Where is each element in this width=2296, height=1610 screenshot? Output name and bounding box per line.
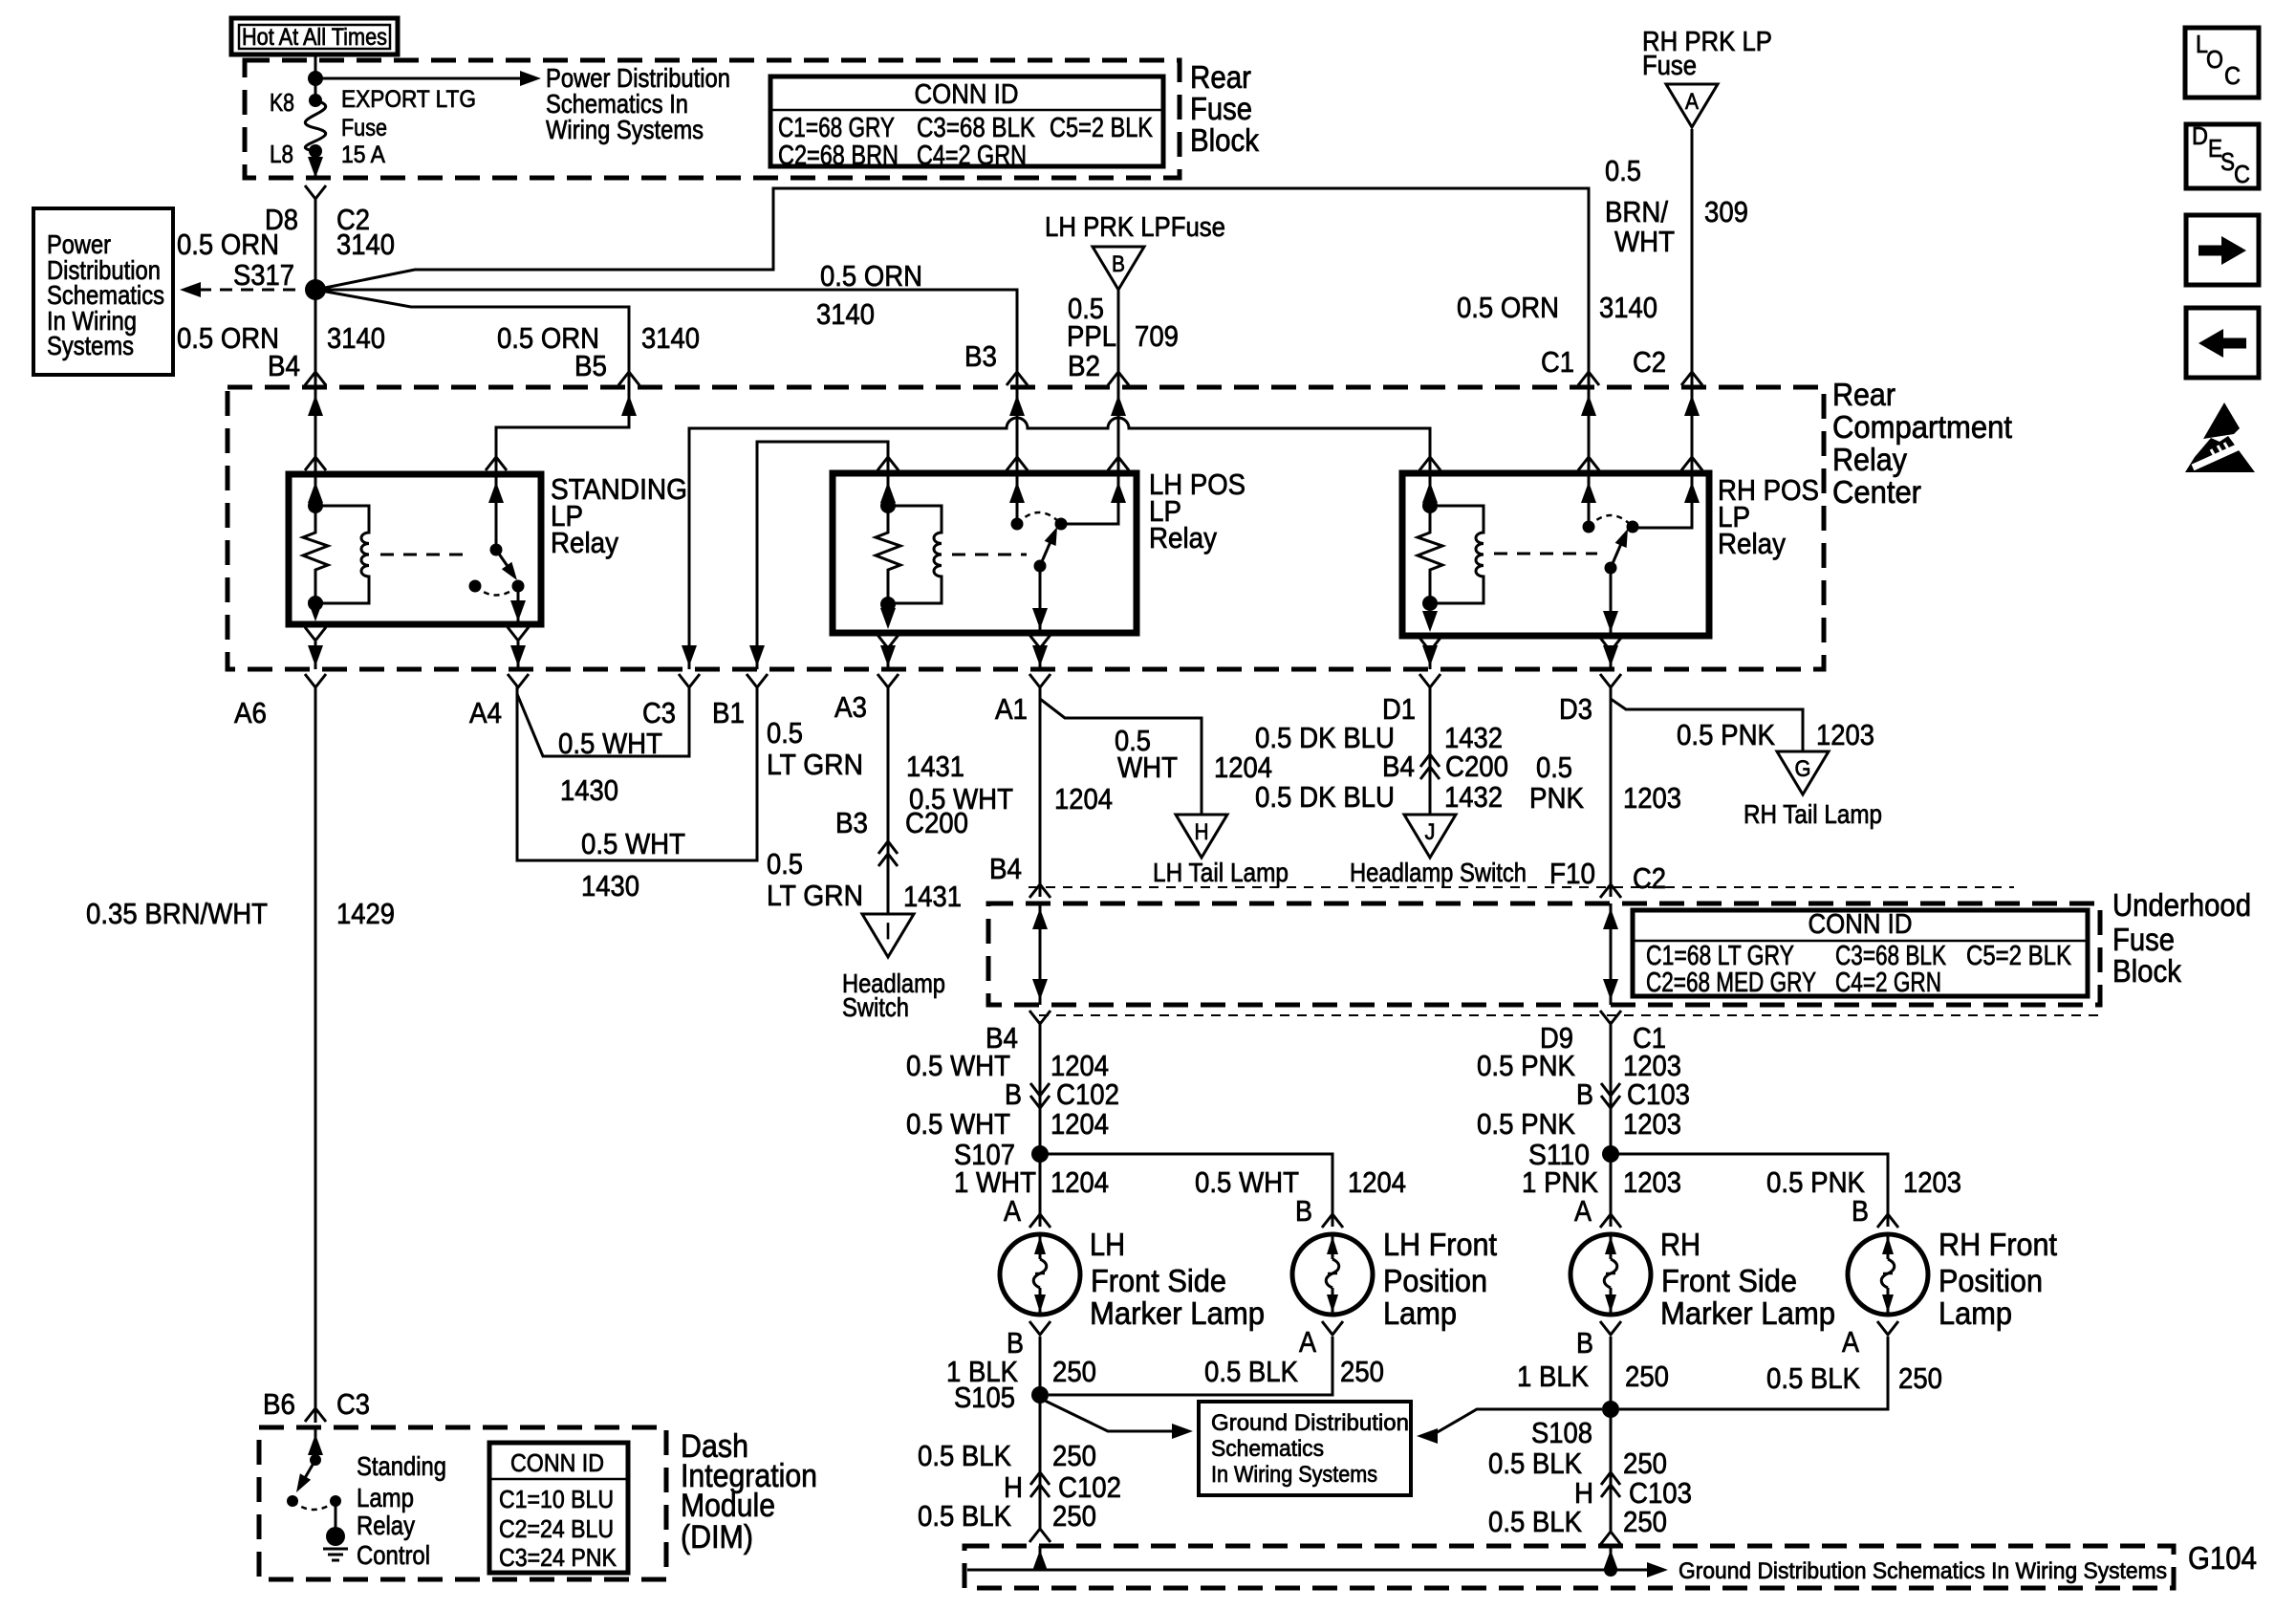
connector fork at G104 boundary (right) [1600, 1532, 1621, 1545]
connector D3 at relay center bottom edge [1600, 674, 1621, 687]
label 0.5 WHT (A4-C3) [558, 727, 662, 760]
wire into G104 (right) [1603, 1546, 1618, 1571]
svg-text:3140: 3140 [641, 321, 700, 355]
svg-text:B4: B4 [268, 349, 300, 382]
svg-text:C: C [2234, 160, 2250, 188]
svg-text:PNK: PNK [1529, 781, 1584, 815]
label 250 (RH position) [1898, 1361, 1942, 1395]
label 0.5 WHT (A1 main) [909, 782, 1013, 816]
underhood connector separation line (thin dashed top) [1029, 886, 2014, 888]
label C200 (right) [1445, 750, 1508, 783]
svg-text:B: B [1852, 1194, 1869, 1228]
label 3140 (B4 run) [327, 321, 385, 355]
svg-text:A6: A6 [234, 696, 267, 729]
label 0.5 WHT (above C102) [906, 1049, 1010, 1082]
label S108 [1531, 1416, 1592, 1449]
svg-text:C5=2 BLK: C5=2 BLK [1966, 941, 2072, 971]
RH POS relay coil-switch dashed link [1494, 553, 1597, 555]
connector A4 at relay center bottom edge [508, 674, 529, 687]
svg-text:B6: B6 [263, 1387, 295, 1421]
svg-text:Relay: Relay [1149, 521, 1217, 555]
relay K LH POS LP Relay box [833, 473, 1137, 633]
label 3140 (B5 run) [641, 321, 700, 355]
svg-text:0.5 BLK: 0.5 BLK [1488, 1447, 1582, 1480]
underhood connector separation line (thin dashed bottom) [1039, 1014, 2100, 1016]
svg-text:C200: C200 [1445, 750, 1508, 783]
connector C103 pin H inline [1601, 1472, 1620, 1497]
STANDING relay switch entry fork/arrow [486, 457, 507, 503]
connector fork RH marker lamp bottom [1600, 1321, 1621, 1335]
connector C200 pin B4 inline [1420, 754, 1440, 779]
svg-text:0.5 DK BLU: 0.5 DK BLU [1255, 721, 1395, 754]
svg-text:0.5 BLK: 0.5 BLK [918, 1439, 1011, 1472]
label RH POS LP Relay [1718, 473, 1819, 560]
label 250 (above H C102) [1052, 1439, 1096, 1472]
svg-text:F10: F10 [1549, 857, 1595, 890]
label RH Tail Lamp [1744, 799, 1882, 829]
label C2 (rear fuse block pin) [336, 203, 370, 236]
wire 0.5 WHT 1430 A4 to B1 [517, 685, 757, 860]
label K8 [270, 88, 294, 117]
svg-text:B5: B5 [574, 349, 607, 382]
svg-text:3140: 3140 [1599, 291, 1657, 324]
label C2 (underhood pin) [1633, 861, 1666, 895]
label B4 (below underhood) [986, 1021, 1018, 1055]
wire through underhood fuse block (right) [1603, 903, 1618, 1005]
svg-text:0.5: 0.5 [767, 716, 803, 750]
wire 0.5 BLK 250 S108 to C103 H [1610, 1409, 1613, 1532]
svg-text:1204: 1204 [1051, 1107, 1109, 1141]
arrow to ground distribution schematics (bottom) [1647, 1562, 1668, 1577]
svg-text:0.5 BLK: 0.5 BLK [1204, 1355, 1298, 1388]
svg-text:1204: 1204 [1051, 1165, 1109, 1199]
label 0.5 BRN/WHT [1605, 154, 1675, 258]
label LH POS LP Relay [1149, 468, 1245, 555]
label D8 [265, 203, 298, 236]
svg-text:Marker Lamp: Marker Lamp [1660, 1295, 1835, 1331]
svg-text:WHT: WHT [1614, 225, 1675, 258]
svg-text:RH: RH [1660, 1227, 1700, 1262]
label D1 [1382, 692, 1416, 726]
ground bus wire in G104 [967, 1569, 1649, 1572]
svg-text:709: 709 [1135, 319, 1179, 353]
svg-text:3140: 3140 [327, 321, 385, 355]
label G104 [2188, 1540, 2257, 1576]
wire A1 to LH Tail Lamp branch [1040, 685, 1202, 815]
svg-text:Relay: Relay [1718, 527, 1786, 560]
svg-text:A: A [1685, 89, 1699, 115]
svg-text:309: 309 [1704, 195, 1748, 228]
RH POS relay coil and resistor [1418, 498, 1484, 611]
connector triangle J Headlamp Switch [1404, 815, 1456, 858]
svg-text:BRN/: BRN/ [1605, 195, 1668, 228]
connector fork B6/C3 at DIM [305, 1408, 326, 1422]
label Ground Distribution Schematics In Wiring Systems (bottom) [1679, 1558, 2167, 1584]
icon box arrow left [2186, 308, 2259, 378]
connector C200 pin B3 inline [878, 841, 898, 866]
label B (LH position) [1295, 1194, 1312, 1228]
svg-text:Relay: Relay [357, 1511, 415, 1540]
svg-text:15 A: 15 A [341, 141, 385, 168]
wire 0.5 WHT 1430 A4 to C3 [517, 685, 689, 756]
Dash Integration Module boundary (dashed) [259, 1427, 666, 1579]
icon box DESC [2186, 121, 2259, 188]
wire D3 to RH Tail Lamp branch [1611, 685, 1803, 751]
svg-text:Headlamp Switch: Headlamp Switch [1350, 858, 1527, 887]
svg-text:1204: 1204 [1054, 782, 1113, 816]
arrow S105 to ground distribution box [1043, 1400, 1193, 1439]
svg-text:1203: 1203 [1816, 718, 1874, 751]
connector triangle H LH Tail Lamp [1176, 815, 1227, 858]
label C1 (below underhood) [1633, 1021, 1666, 1055]
label 0.5 BLK (RH position) [1766, 1361, 1860, 1395]
label 0.5 PNK (D3 main) [1529, 751, 1584, 815]
label 0.5 BLK (below H C102) [918, 1499, 1011, 1533]
label 1204 (tail lamp) [1214, 751, 1272, 784]
svg-text:1 BLK: 1 BLK [1517, 1360, 1589, 1393]
label 0.5 ORN (B5 run) [497, 321, 599, 355]
label B4 (relay center pin) [268, 349, 300, 382]
svg-text:Fuse: Fuse [341, 115, 387, 141]
svg-text:Underhood: Underhood [2112, 887, 2251, 923]
svg-text:Marker Lamp: Marker Lamp [1090, 1295, 1265, 1331]
svg-text:0.5 WHT: 0.5 WHT [906, 1107, 1010, 1141]
connector fork LH marker lamp bottom [1029, 1321, 1051, 1335]
connector C1 at relay center top edge [1578, 372, 1599, 416]
label 0.5 LT GRN 1431 (lower) [767, 847, 962, 913]
svg-text:(DIM): (DIM) [681, 1519, 753, 1556]
svg-text:C1: C1 [1541, 345, 1574, 379]
svg-text:Systems: Systems [47, 331, 134, 360]
STANDING relay coil exit arrow [305, 600, 326, 641]
label B1 [712, 696, 745, 729]
connector B1 at relay center bottom edge [747, 674, 768, 687]
wire C3 riser to RH POS relay coil (with hops) [682, 418, 1430, 669]
wire 1 WHT 1204 S107 to LH marker lamp [1039, 1154, 1042, 1227]
svg-text:G104: G104 [2188, 1540, 2257, 1576]
label A (RH position) [1842, 1325, 1859, 1359]
wire 0.5 BLK 250 LH position to S105 [1049, 1337, 1332, 1395]
connector B4 fork below underhood (left) [1029, 1011, 1051, 1024]
label B6 [263, 1387, 295, 1421]
svg-text:LH: LH [1090, 1227, 1125, 1262]
connector B3 at relay center top edge [1007, 372, 1028, 416]
svg-text:1203: 1203 [1903, 1165, 1961, 1199]
svg-text:B4: B4 [989, 852, 1022, 885]
svg-text:250: 250 [1898, 1361, 1942, 1395]
wire 0.5 PNK 1203 underhood to S110 [1610, 1021, 1613, 1154]
wire 0.5 BLK 250 RH position to S108 [1619, 1337, 1888, 1409]
svg-text:0.5 ORN: 0.5 ORN [177, 228, 279, 261]
svg-text:Schematics: Schematics [1211, 1436, 1324, 1462]
connector triangle A RH PRK LP Fuse [1666, 84, 1718, 127]
svg-text:D3: D3 [1559, 692, 1592, 726]
svg-text:Block: Block [1190, 122, 1259, 158]
svg-text:C3: C3 [336, 1387, 370, 1421]
label 0.5 WHT (tail lamp) [1115, 724, 1178, 784]
connector B2 at relay center top edge [1108, 372, 1129, 416]
svg-text:0.5 WHT: 0.5 WHT [558, 727, 662, 760]
wire 0.5 WHT 1204 underhood to S107 [1039, 1021, 1042, 1154]
connector C102 pin H inline [1030, 1472, 1050, 1497]
label 3140 (C1 drop) [1599, 291, 1657, 324]
svg-text:C2=68 BRN: C2=68 BRN [778, 141, 899, 171]
label Headlamp Switch (I) [842, 968, 945, 1022]
svg-text:C103: C103 [1627, 1077, 1690, 1111]
svg-text:1431: 1431 [906, 750, 964, 783]
label D3 [1559, 692, 1592, 726]
label 1204 (position feed) [1348, 1165, 1406, 1199]
connector fork RH position lamp top [1877, 1214, 1898, 1228]
label S110 [1528, 1138, 1590, 1171]
label 1204 (below C102) [1051, 1107, 1109, 1141]
LH POS relay coil-switch dashed link [952, 554, 1027, 556]
label 1 BLK [946, 1355, 1018, 1388]
connector fork at G104 boundary (left) [1029, 1529, 1051, 1542]
label LH Front Side Marker Lamp [1090, 1227, 1265, 1331]
connector fork LH position lamp top [1322, 1214, 1343, 1228]
wire fuse L8 to D8 exit [308, 151, 323, 178]
svg-text:250: 250 [1623, 1447, 1667, 1480]
svg-text:Center: Center [1832, 474, 1921, 510]
svg-text:Fuse: Fuse [2112, 922, 2175, 957]
svg-text:0.5: 0.5 [1605, 154, 1641, 187]
svg-text:CONN ID: CONN ID [915, 79, 1019, 110]
svg-text:0.5 BLK: 0.5 BLK [1766, 1361, 1860, 1395]
svg-text:0.5: 0.5 [1536, 751, 1572, 784]
wire from Hot At All Times into fuse K8 [308, 54, 323, 107]
label A (LH marker) [1004, 1194, 1021, 1228]
svg-text:1204: 1204 [1348, 1165, 1406, 1199]
svg-text:B: B [1112, 251, 1125, 277]
svg-text:B3: B3 [835, 806, 868, 839]
svg-text:C3=68 BLK: C3=68 BLK [917, 113, 1036, 143]
connector triangle I Headlamp Switch [862, 914, 914, 957]
label A1 [995, 692, 1028, 726]
label B (C103) [1576, 1077, 1593, 1111]
arrow to Power Distribution Schematics (top) [315, 71, 541, 86]
svg-text:A: A [1004, 1194, 1021, 1228]
svg-text:LH PRK LPFuse: LH PRK LPFuse [1045, 212, 1225, 243]
svg-text:Hot At All Times: Hot At All Times [242, 24, 387, 51]
icon box arrow right [2186, 215, 2259, 285]
label 0.5 PNK (position feed) [1766, 1165, 1865, 1199]
svg-text:0.5 PNK: 0.5 PNK [1766, 1165, 1865, 1199]
label 0.5 LT GRN (upper) [767, 716, 863, 781]
wire D3 inside relay center [1603, 645, 1618, 669]
svg-text:0.5 PNK: 0.5 PNK [1477, 1107, 1575, 1141]
label 309 [1704, 195, 1748, 228]
label B (RH marker bottom) [1576, 1326, 1593, 1360]
svg-text:B: B [1295, 1194, 1312, 1228]
splice S110 [1602, 1145, 1619, 1163]
svg-text:1430: 1430 [560, 773, 618, 807]
svg-text:L8: L8 [270, 140, 293, 168]
label 709 [1135, 319, 1179, 353]
label C2 (underhood feed) [1633, 345, 1666, 379]
svg-text:0.35 BRN/WHT: 0.35 BRN/WHT [86, 897, 268, 930]
svg-text:C1=10 BLU: C1=10 BLU [499, 1485, 614, 1513]
svg-text:1203: 1203 [1623, 781, 1681, 815]
label A3 [834, 690, 867, 724]
label 0.5 ORN (C1 drop) [1457, 291, 1559, 324]
svg-text:B: B [1576, 1077, 1593, 1111]
svg-text:C3=24 PNK: C3=24 PNK [499, 1543, 617, 1572]
wire B1 riser to LH POS relay coil [749, 442, 888, 669]
fuse F EXPORT LTG 15A element [305, 100, 325, 158]
wire 0.5 ORN 3140 D8 to S317 [314, 197, 317, 290]
svg-text:1430: 1430 [581, 869, 639, 903]
svg-text:Fuse: Fuse [1190, 91, 1252, 126]
svg-text:0.5 ORN: 0.5 ORN [1457, 291, 1559, 324]
label 1 PNK [1522, 1165, 1598, 1199]
label 1204 (lamp feed) [1051, 1165, 1109, 1199]
label 0.5 WHT (position feed) [1195, 1165, 1299, 1199]
Underhood Fuse Block boundary (dashed) [988, 903, 2100, 1005]
svg-text:3140: 3140 [336, 228, 395, 261]
label Underhood Fuse Block [2112, 887, 2251, 989]
label Headlamp Switch (J) [1350, 858, 1527, 887]
svg-text:C5=2 BLK: C5=2 BLK [1050, 113, 1154, 143]
svg-text:G: G [1795, 756, 1811, 782]
wire 0.5 WHT 1204 S107 to LH position lamp [1040, 1154, 1332, 1227]
svg-text:I: I [885, 919, 891, 945]
label STANDING LP Relay [551, 472, 687, 559]
connector C2 at relay center top edge [1681, 372, 1702, 416]
wire D1 inside relay center [1422, 645, 1438, 669]
svg-text:Position: Position [1383, 1263, 1487, 1298]
label 0.5 DK BLU 1432 (lower) [1255, 780, 1503, 814]
label 1203 (position feed) [1903, 1165, 1961, 1199]
svg-text:1432: 1432 [1444, 780, 1503, 814]
label 1 BLK (RH) [1517, 1360, 1589, 1393]
svg-text:Ground Distribution Schematics: Ground Distribution Schematics In Wiring… [1679, 1558, 2167, 1584]
label 0.5 DK BLU 1432 (upper) [1255, 721, 1503, 754]
svg-text:Compartment: Compartment [1832, 409, 2012, 445]
svg-text:A: A [1574, 1194, 1592, 1228]
label Standing Lamp Relay Control [357, 1451, 446, 1570]
svg-text:0.5 WHT: 0.5 WHT [906, 1049, 1010, 1082]
label 250 (below H C102) [1052, 1499, 1096, 1533]
label RH Front Position Lamp [1939, 1227, 2057, 1331]
svg-text:C102: C102 [1056, 1077, 1119, 1111]
splice S108 [1602, 1401, 1619, 1418]
STANDING relay switch [469, 544, 530, 642]
svg-text:C3: C3 [642, 696, 676, 729]
svg-text:B4: B4 [1382, 750, 1415, 783]
label C103 (upper) [1627, 1077, 1690, 1111]
svg-text:0.5 PNK: 0.5 PNK [1677, 718, 1775, 751]
DIM standing lamp relay control switch [287, 1427, 341, 1510]
label 0.5 WHT (below C102) [906, 1107, 1010, 1141]
Rear Compartment Relay Center boundary (dashed) [227, 387, 1824, 669]
svg-text:S317: S317 [233, 258, 294, 292]
label A (LH position) [1299, 1325, 1316, 1359]
LH POS relay coil exit arrow [877, 608, 899, 648]
label 1203 (above C103) [1623, 1049, 1681, 1082]
svg-text:0.5 BLK: 0.5 BLK [1488, 1505, 1582, 1538]
wire 1 BLK 250 lamp to S105 [1039, 1337, 1042, 1395]
LH POS relay coil and resistor [876, 498, 942, 612]
label LH PRK LPFuse [1045, 212, 1225, 243]
svg-text:Front Side: Front Side [1091, 1263, 1226, 1298]
svg-text:A1: A1 [995, 692, 1028, 726]
wire A4 inside relay center [510, 642, 526, 669]
svg-text:WHT: WHT [1117, 751, 1178, 784]
wire 0.5 ORN 3140 S317 to B3 [315, 290, 1017, 524]
label RH PRK LP Fuse [1642, 27, 1772, 81]
reference box Ground Distribution Schematics In Wiring Systems [1199, 1402, 1411, 1495]
svg-text:B3: B3 [964, 339, 997, 373]
svg-text:0.5 PNK: 0.5 PNK [1477, 1049, 1575, 1082]
svg-text:Lamp: Lamp [1383, 1295, 1457, 1331]
label C102 (lower) [1058, 1470, 1121, 1504]
label 1204 (above C102) [1051, 1049, 1109, 1082]
label B3 (C200 pin) [835, 806, 868, 839]
label 1430 (A4-C3) [560, 773, 618, 807]
label 0.5 ORN (D8-S317) [177, 228, 279, 261]
label RH Front Side Marker Lamp [1660, 1227, 1835, 1331]
label 3140 (D8-S317) [336, 228, 395, 261]
label C102 (upper) [1056, 1077, 1119, 1111]
connector D9/C1 fork below underhood (right) [1600, 1011, 1621, 1024]
svg-text:J: J [1425, 819, 1436, 845]
label 1203 (lamp feed) [1623, 1165, 1681, 1199]
label L8 [270, 140, 293, 168]
svg-text:B2: B2 [1068, 349, 1100, 382]
svg-text:C1=68 GRY: C1=68 GRY [778, 113, 895, 143]
label 1429 [336, 897, 395, 930]
DIM CONN ID table [489, 1443, 628, 1573]
svg-text:B1: B1 [712, 696, 745, 729]
label 0.5 BLK (above H C103) [1488, 1447, 1582, 1480]
svg-text:A: A [1842, 1325, 1859, 1359]
power source label box Hot At All Times [231, 18, 398, 54]
svg-text:250: 250 [1340, 1355, 1384, 1388]
wire into G104 (left) [1032, 1546, 1048, 1571]
svg-text:In Wiring Systems: In Wiring Systems [1211, 1462, 1377, 1488]
svg-text:C2: C2 [1633, 861, 1666, 895]
svg-text:3140: 3140 [816, 297, 875, 331]
svg-text:Relay: Relay [551, 526, 618, 559]
wire 1 BLK 250 lamp to S108 [1610, 1337, 1613, 1409]
wire 0.5 ORN 3140 S317 to B4 [314, 290, 317, 506]
connector B5 at relay center top edge [618, 372, 639, 416]
svg-text:C4=2 GRN: C4=2 GRN [1835, 968, 1941, 998]
svg-text:250: 250 [1623, 1505, 1667, 1538]
label LH Front Position Lamp [1383, 1227, 1497, 1331]
label 0.5 ORN (B3 run) [820, 259, 922, 293]
svg-text:Standing: Standing [357, 1451, 446, 1481]
svg-text:C2=68 MED GRY: C2=68 MED GRY [1646, 968, 1816, 998]
label 0.5 PNK (above C103) [1477, 1049, 1575, 1082]
svg-text:C2: C2 [1633, 345, 1666, 379]
label EXPORT LTG Fuse 15 A [341, 86, 476, 168]
label 1204 (A1 main) [1054, 782, 1113, 816]
Rear Fuse Block boundary (dashed) [245, 60, 1180, 178]
svg-text:0.5 ORN: 0.5 ORN [820, 259, 922, 293]
svg-text:K8: K8 [270, 88, 294, 117]
label 250 (LH position) [1340, 1355, 1384, 1388]
svg-text:Rear: Rear [1832, 377, 1895, 412]
RH POS relay C1 contact entry [1578, 457, 1599, 503]
label Dash Integration Module (DIM) [681, 1428, 817, 1556]
label 1203 (below C103) [1623, 1107, 1681, 1141]
label 0.5 PPL [1067, 292, 1116, 353]
reference box Power Distribution Schematics In Wiring Systems (left) [33, 208, 173, 375]
LH POS relay coil entry fork/arrow [877, 457, 899, 503]
svg-text:H: H [1195, 819, 1209, 845]
